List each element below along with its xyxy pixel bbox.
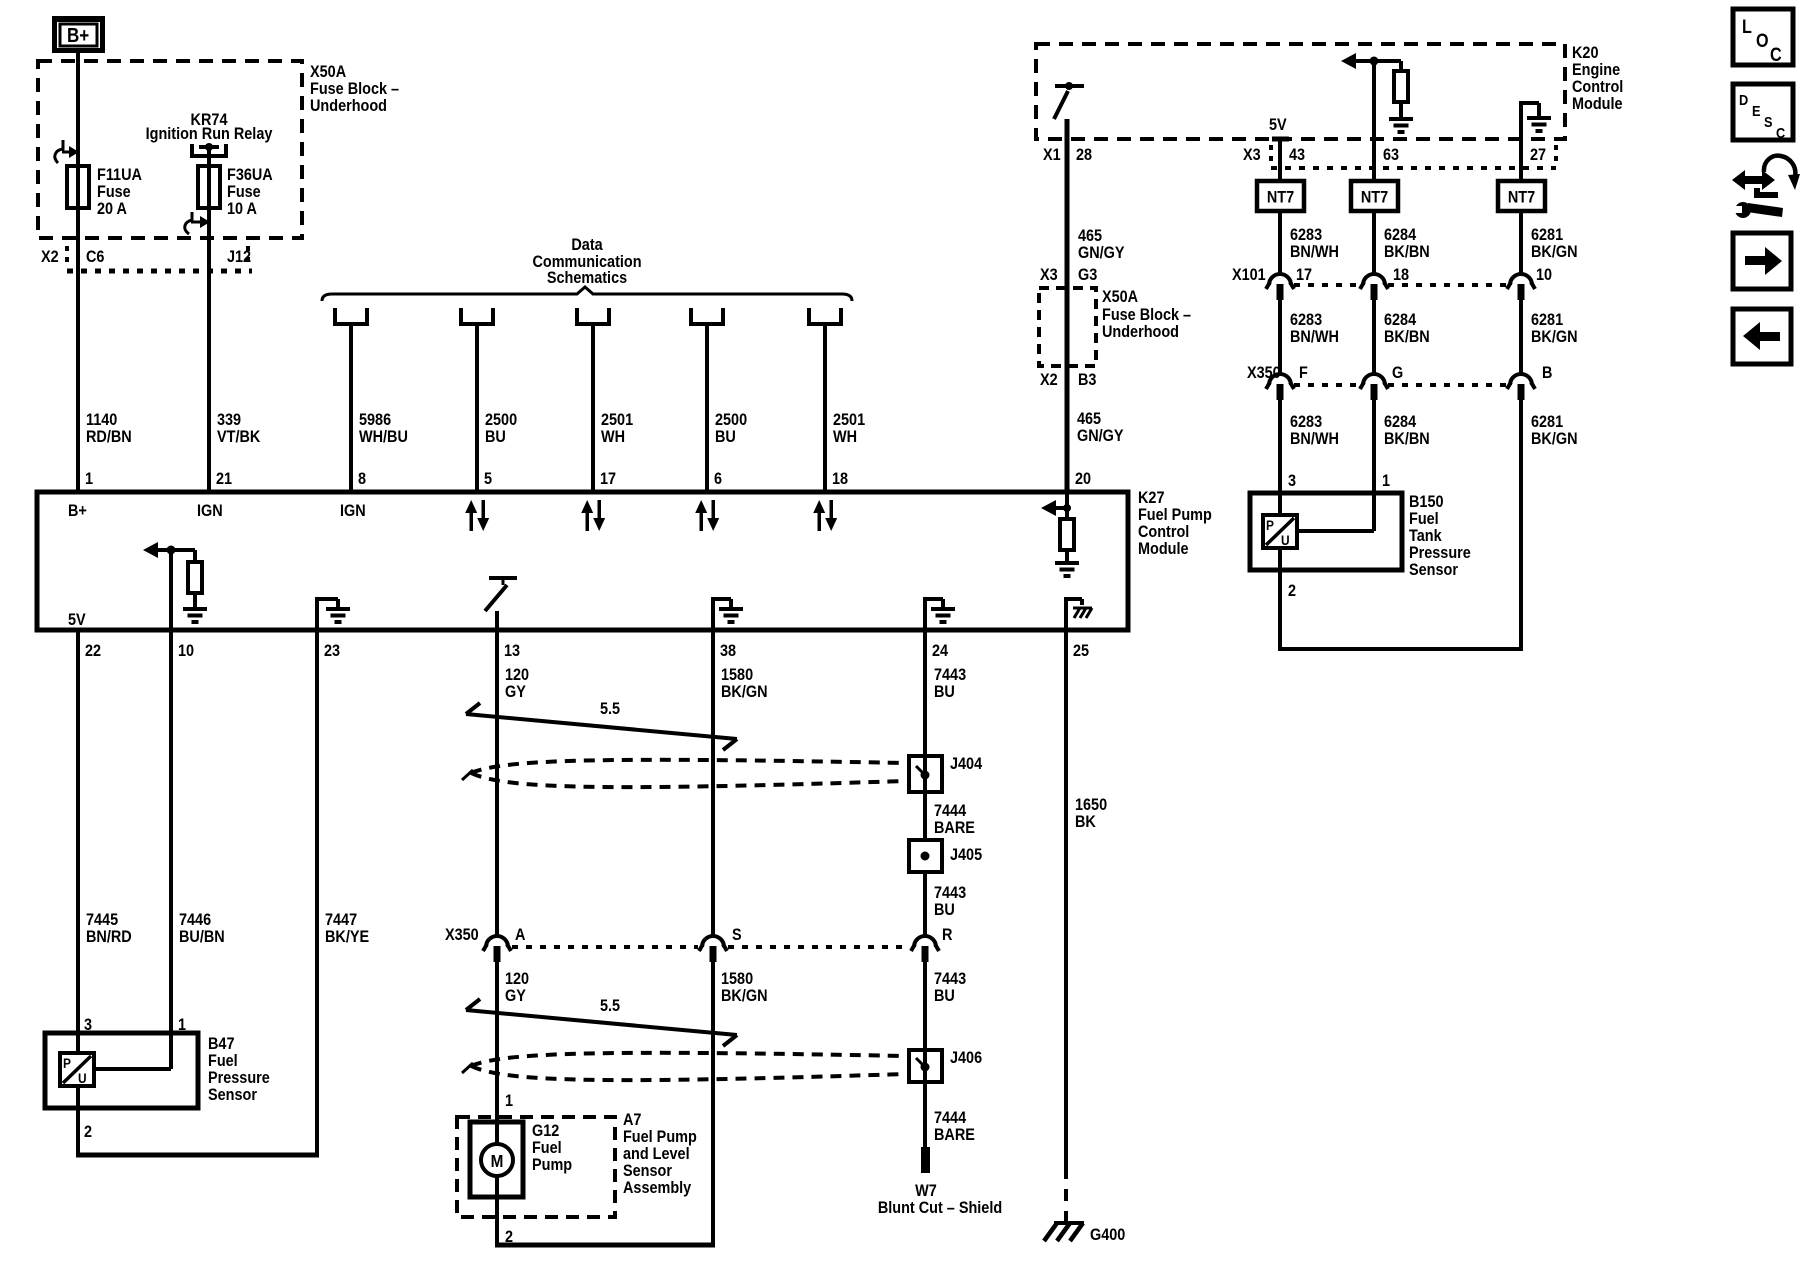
internal supply arrow at pin 20	[1041, 492, 1071, 520]
fuse F11UA 20 A	[67, 166, 89, 208]
wire B47 pin 2 return	[76, 1086, 319, 1155]
svg-text:B150: B150	[1409, 493, 1444, 511]
wire 6283 X101 to X350	[1278, 300, 1282, 374]
connector X101 terminal 10	[1507, 274, 1535, 300]
assembly A7 dashed box	[457, 1117, 615, 1217]
svg-text:5.5: 5.5	[600, 997, 620, 1015]
pressure transducer symbol in B150	[1263, 515, 1297, 548]
svg-text:A7: A7	[623, 1111, 642, 1129]
fuse block X50A dashed box	[38, 61, 302, 238]
wire 7447 BK/YE pin 23	[315, 630, 319, 1155]
icon back arrow box	[1733, 309, 1791, 364]
svg-text:6281: 6281	[1531, 311, 1563, 329]
svg-text:B+: B+	[68, 502, 87, 520]
internal switch at X1 28	[1054, 82, 1084, 119]
svg-text:3: 3	[1288, 472, 1296, 490]
wire 1650 BK pin 25	[1064, 630, 1068, 1167]
label K20 Engine Control Module	[1572, 44, 1623, 113]
svg-text:7443: 7443	[934, 884, 966, 902]
svg-text:C6: C6	[86, 248, 105, 266]
svg-text:X50A: X50A	[310, 63, 346, 81]
svg-text:Ignition Run Relay: Ignition Run Relay	[146, 125, 273, 143]
svg-text:23: 23	[324, 642, 340, 660]
wire label 120 GY	[505, 666, 529, 701]
svg-text:BK/GN: BK/GN	[1531, 243, 1578, 261]
svg-text:Tank: Tank	[1409, 527, 1442, 545]
connector X350 row labels upper	[1247, 364, 1552, 382]
motor M symbol	[481, 1144, 513, 1176]
sensor B47 box	[45, 1033, 198, 1108]
connector clip below fuse F36UA	[185, 212, 210, 234]
svg-text:13: 13	[504, 642, 520, 660]
wire 7446 BU/BN pin 10 to B47	[94, 550, 171, 1069]
fuse F36UA 10 A	[198, 166, 220, 208]
svg-text:B: B	[1542, 364, 1552, 382]
splice J404	[909, 756, 942, 792]
svg-text:1: 1	[85, 470, 93, 488]
data wire 2500 BU pin 5	[475, 324, 479, 492]
svg-text:GY: GY	[505, 683, 526, 701]
svg-text:38: 38	[720, 642, 736, 660]
svg-text:Fuel Pump: Fuel Pump	[623, 1128, 697, 1146]
svg-text:Fuse: Fuse	[97, 183, 131, 201]
wire 6283 BN/WH NT7 to X101	[1278, 211, 1282, 274]
svg-text:BK/GN: BK/GN	[1531, 430, 1578, 448]
svg-text:465: 465	[1077, 410, 1101, 428]
wire label 1580 BK/GN	[721, 666, 768, 701]
svg-text:Sensor: Sensor	[208, 1086, 257, 1104]
svg-text:B+: B+	[67, 24, 89, 47]
internal ground at pin 20 branch	[1055, 561, 1079, 578]
svg-text:BN/WH: BN/WH	[1290, 430, 1339, 448]
svg-text:BN/WH: BN/WH	[1290, 328, 1339, 346]
svg-text:10 A: 10 A	[227, 200, 257, 218]
wire label 7443 BU	[934, 884, 966, 919]
svg-text:21: 21	[216, 470, 232, 488]
splice J406	[909, 1050, 942, 1082]
svg-text:M: M	[491, 1151, 504, 1171]
wire B150 pin 1 internal	[1297, 529, 1374, 533]
svg-text:G12: G12	[532, 1122, 560, 1140]
svg-text:X3: X3	[1243, 146, 1261, 164]
svg-text:GY: GY	[505, 987, 526, 1005]
svg-text:J406: J406	[950, 1049, 982, 1067]
twisted pair marker 5.5 upper	[466, 703, 737, 750]
wire label 6283 BN/WH set2	[1290, 311, 1339, 346]
svg-text:X3: X3	[1040, 266, 1058, 284]
internal ground at pin 27	[1527, 116, 1551, 133]
internal ground at pin 10	[183, 607, 207, 624]
svg-text:W7: W7	[915, 1182, 937, 1200]
wire 7445 BN/RD pin 22 to B47	[76, 630, 80, 1054]
label F11UA Fuse 20 A	[97, 166, 142, 218]
noise suppressor NT7 third	[1498, 181, 1545, 211]
svg-text:1: 1	[1382, 472, 1390, 490]
data wire 2501 WH pin 17	[591, 324, 595, 492]
svg-text:F: F	[1299, 364, 1308, 382]
wire label 2501 WH	[833, 411, 865, 446]
connector clip on wire C6	[55, 140, 79, 163]
svg-text:BU: BU	[934, 683, 955, 701]
internal resistor at pin 63	[1394, 61, 1408, 117]
wire label 6281 BK/GN set1	[1531, 226, 1578, 261]
svg-text:120: 120	[505, 970, 529, 988]
sensor B150 box	[1250, 493, 1402, 570]
svg-text:18: 18	[832, 470, 848, 488]
svg-text:6284: 6284	[1384, 226, 1416, 244]
svg-text:7444: 7444	[934, 802, 966, 820]
wire label 7443 BU	[934, 666, 966, 701]
svg-text:1650: 1650	[1075, 796, 1107, 814]
svg-text:1580: 1580	[721, 970, 753, 988]
svg-text:BK/GN: BK/GN	[721, 683, 768, 701]
svg-text:L: L	[1742, 16, 1752, 38]
data communication schematics label	[532, 236, 641, 287]
data terminal 2	[461, 308, 493, 324]
wire label 6283 BN/WH set1	[1290, 226, 1339, 261]
svg-text:F36UA: F36UA	[227, 166, 273, 184]
svg-text:BARE: BARE	[934, 1126, 975, 1144]
svg-text:5.5: 5.5	[600, 700, 620, 718]
svg-text:RD/BN: RD/BN	[86, 428, 132, 446]
fuel pump G12 box	[470, 1122, 523, 1197]
svg-text:Engine: Engine	[1572, 61, 1620, 79]
wire 6281 X101 to X350	[1519, 300, 1523, 374]
svg-text:Fuse Block –: Fuse Block –	[1102, 306, 1191, 324]
wire label 7443 BU lower	[934, 970, 966, 1005]
internal chassis ground at pin 25	[1064, 597, 1092, 630]
svg-text:Underhood: Underhood	[1102, 323, 1179, 341]
wire 6281 BK/GN NT7 to X101	[1519, 211, 1523, 274]
relay KR74 label	[146, 111, 273, 143]
svg-text:18: 18	[1393, 266, 1409, 284]
wire 6284 X101 to X350	[1372, 300, 1376, 374]
svg-text:K27: K27	[1138, 489, 1165, 507]
wire label 1650 BK	[1075, 796, 1107, 831]
svg-text:Pump: Pump	[532, 1156, 572, 1174]
relay KR74 contact symbol	[192, 143, 226, 156]
svg-text:5V: 5V	[68, 611, 86, 629]
blunt cut W7 bar	[921, 1147, 930, 1173]
connector X350 row labels lower	[445, 926, 953, 944]
data arrows pin 5	[465, 500, 489, 531]
svg-text:7443: 7443	[934, 666, 966, 684]
svg-text:Module: Module	[1138, 540, 1189, 558]
shield loop dashed ellipse lower	[462, 1053, 905, 1080]
svg-text:Fuel Pump: Fuel Pump	[1138, 506, 1212, 524]
shield loop dashed ellipse upper	[462, 760, 905, 787]
svg-text:7443: 7443	[934, 970, 966, 988]
label X50A Fuse Block Underhood	[310, 63, 399, 115]
wire label 7444 BARE lower	[934, 1109, 975, 1144]
internal 5V reference arrow at pin 63	[1341, 53, 1401, 69]
svg-text:BK/GN: BK/GN	[1531, 328, 1578, 346]
svg-text:F11UA: F11UA	[97, 166, 142, 184]
connector X101 terminal 17	[1266, 274, 1294, 300]
wire 63 vertical	[1372, 61, 1376, 181]
svg-text:6284: 6284	[1384, 311, 1416, 329]
svg-text:7447: 7447	[325, 911, 357, 929]
label W7 Blunt Cut Shield	[878, 1182, 1002, 1217]
svg-text:6281: 6281	[1531, 413, 1563, 431]
svg-text:2: 2	[1288, 582, 1296, 600]
svg-text:BU: BU	[715, 428, 736, 446]
module K27 Fuel Pump Control Module box	[37, 492, 1128, 630]
svg-text:X101: X101	[1232, 266, 1266, 284]
connector X350 terminal S	[699, 936, 727, 962]
svg-text:Assembly: Assembly	[623, 1179, 691, 1197]
internal switch driver at pin 13	[485, 578, 517, 630]
svg-text:20: 20	[1075, 470, 1091, 488]
wire 7443 BU pin 24 upper	[923, 630, 927, 756]
svg-text:24: 24	[932, 642, 948, 660]
wire label 6281 BK/GN set3	[1531, 413, 1578, 448]
svg-text:17: 17	[600, 470, 616, 488]
data wire 5986 WH/BU pin 8	[349, 324, 353, 492]
svg-text:25: 25	[1073, 642, 1089, 660]
svg-text:J405: J405	[950, 846, 982, 864]
internal resistor at pin 20	[1060, 519, 1074, 561]
svg-text:Blunt Cut – Shield: Blunt Cut – Shield	[878, 1199, 1002, 1217]
internal 5V reference arrow at pin 10	[143, 542, 195, 558]
wire 1580 BK/GN lower	[711, 962, 715, 1247]
svg-text:27: 27	[1530, 146, 1546, 164]
wire 120 GY pin 13 upper	[495, 630, 499, 937]
svg-text:Module: Module	[1572, 95, 1623, 113]
svg-text:BARE: BARE	[934, 819, 975, 837]
svg-text:C: C	[1770, 44, 1782, 66]
svg-text:Fuel: Fuel	[208, 1052, 238, 1070]
connector X350 dashed links upper	[1294, 383, 1506, 387]
svg-text:7446: 7446	[179, 911, 211, 929]
wire label 7444 BARE	[934, 802, 975, 837]
wire label 465 GN/GY lower	[1077, 410, 1124, 445]
svg-text:Data: Data	[571, 236, 603, 254]
svg-text:BK/YE: BK/YE	[325, 928, 369, 946]
wire fuel pump return	[495, 1175, 715, 1245]
svg-text:Schematics: Schematics	[547, 269, 627, 287]
wire relay to fuse F36UA to module pin 21	[207, 147, 211, 492]
data wire 2500 BU pin 6	[705, 324, 709, 492]
svg-text:BK/BN: BK/BN	[1384, 243, 1430, 261]
wire label 2500 BU	[485, 411, 517, 446]
connector X101 dashed links	[1294, 283, 1506, 287]
icon LOC box	[1733, 9, 1793, 65]
svg-text:Control: Control	[1138, 523, 1189, 541]
svg-text:BK/BN: BK/BN	[1384, 328, 1430, 346]
connector X2 pin row labels	[41, 248, 251, 266]
svg-text:2501: 2501	[601, 411, 633, 429]
svg-text:R: R	[942, 926, 953, 944]
data communication brace	[322, 287, 852, 301]
wire 43 stub at ECM	[1272, 139, 1289, 181]
svg-text:O: O	[1756, 30, 1769, 52]
svg-text:63: 63	[1383, 146, 1399, 164]
connector X350 terminal A	[483, 936, 511, 962]
data terminal 4	[691, 308, 723, 324]
svg-text:17: 17	[1296, 266, 1312, 284]
wire B+ to fuse F11UA to module pin 1	[76, 53, 80, 492]
svg-text:X2: X2	[1040, 371, 1058, 389]
svg-text:Sensor: Sensor	[1409, 561, 1458, 579]
internal ground at pin 23	[315, 597, 338, 630]
label B47 Fuel Pressure Sensor	[208, 1035, 270, 1104]
ground G400 symbol	[1044, 1223, 1084, 1241]
connector X2 dotted separators	[67, 246, 252, 271]
svg-text:G3: G3	[1078, 266, 1097, 284]
label B150 Fuel Tank Pressure Sensor	[1409, 493, 1471, 579]
pressure transducer symbol in B47	[60, 1053, 94, 1086]
label K27 Fuel Pump Control Module	[1138, 489, 1212, 558]
svg-text:BU: BU	[934, 987, 955, 1005]
data terminal 5	[809, 308, 841, 324]
wire label 6283 BN/WH set3	[1290, 413, 1339, 448]
wire label 1580 BK/GN lower	[721, 970, 768, 1005]
svg-text:GN/GY: GN/GY	[1077, 427, 1124, 445]
svg-text:BK/GN: BK/GN	[721, 987, 768, 1005]
svg-text:10: 10	[178, 642, 194, 660]
wire label 6284 BK/BN set3	[1384, 413, 1430, 448]
svg-text:7444: 7444	[934, 1109, 966, 1127]
connector X350 terminal R	[911, 936, 939, 962]
svg-text:10: 10	[1536, 266, 1552, 284]
module K20 Engine Control Module dashed box	[1036, 44, 1565, 139]
wire dashed segment to G400	[1064, 1167, 1068, 1226]
wire label 6284 BK/BN set1	[1384, 226, 1430, 261]
svg-text:6283: 6283	[1290, 226, 1322, 244]
connector X350 terminal G	[1360, 374, 1388, 400]
wire label 5986 WH/BU	[359, 411, 408, 446]
icon pointer navigation	[1732, 156, 1800, 218]
wire 7443 BU lower	[923, 962, 927, 1050]
svg-text:WH: WH	[601, 428, 625, 446]
svg-text:6: 6	[714, 470, 722, 488]
label A7 Fuel Pump and Level Sensor Assembly	[623, 1111, 697, 1197]
splice J405	[909, 840, 942, 872]
svg-text:X350: X350	[445, 926, 479, 944]
wire label 465 GN/GY upper	[1078, 227, 1125, 262]
svg-text:GN/GY: GN/GY	[1078, 244, 1125, 262]
svg-text:5986: 5986	[359, 411, 391, 429]
connector X101 row labels	[1232, 266, 1552, 284]
svg-text:5: 5	[484, 470, 492, 488]
svg-text:BU/BN: BU/BN	[179, 928, 225, 946]
wire label 6281 BK/GN set2	[1531, 311, 1578, 346]
svg-text:BU: BU	[485, 428, 506, 446]
svg-text:28: 28	[1076, 146, 1092, 164]
svg-text:Fuse: Fuse	[227, 183, 261, 201]
svg-text:BN/WH: BN/WH	[1290, 243, 1339, 261]
svg-text:339: 339	[217, 411, 241, 429]
svg-text:B47: B47	[208, 1035, 235, 1053]
connector X101 terminal 18	[1360, 274, 1388, 300]
svg-text:X1: X1	[1043, 146, 1061, 164]
svg-text:A: A	[515, 926, 525, 944]
svg-text:1: 1	[505, 1092, 513, 1110]
svg-text:2501: 2501	[833, 411, 865, 429]
svg-text:6283: 6283	[1290, 413, 1322, 431]
svg-text:G400: G400	[1090, 1226, 1126, 1244]
svg-text:G: G	[1392, 364, 1403, 382]
svg-text:43: 43	[1289, 146, 1305, 164]
svg-text:2: 2	[84, 1123, 92, 1141]
svg-text:22: 22	[85, 642, 101, 660]
svg-text:7445: 7445	[86, 911, 118, 929]
wire 6284 BK/BN NT7 to X101	[1372, 211, 1376, 274]
svg-text:D: D	[1739, 91, 1748, 108]
data terminal 1	[335, 308, 367, 324]
data arrows pin 6	[695, 500, 719, 531]
internal resistor at pin 10	[188, 550, 202, 607]
wire label 339 VT/BK	[217, 411, 261, 446]
svg-text:2500: 2500	[715, 411, 747, 429]
label X50A Fuse Block Underhood right	[1102, 288, 1191, 341]
svg-text:BN/RD: BN/RD	[86, 928, 132, 946]
svg-text:VT/BK: VT/BK	[217, 428, 261, 446]
connector X350 terminal F	[1266, 374, 1294, 400]
wire label 7447 BK/YE	[325, 911, 369, 946]
svg-text:120: 120	[505, 666, 529, 684]
svg-text:20 A: 20 A	[97, 200, 127, 218]
data wire 2501 WH pin 18	[823, 324, 827, 492]
wire label 7446 BU/BN	[179, 911, 225, 946]
svg-text:BU: BU	[934, 901, 955, 919]
svg-text:6283: 6283	[1290, 311, 1322, 329]
svg-text:Fuse Block –: Fuse Block –	[310, 80, 399, 98]
wire 7444 BARE J404 to J405	[923, 792, 927, 840]
svg-text:2500: 2500	[485, 411, 517, 429]
data arrows pin 17	[581, 500, 605, 531]
fuse block X50A pass-through dashed box	[1039, 288, 1096, 366]
wire label 1140 RD/BN	[86, 411, 132, 446]
svg-text:Pressure: Pressure	[1409, 544, 1471, 562]
svg-text:465: 465	[1078, 227, 1102, 245]
wire label 7445 BN/RD	[86, 911, 132, 946]
svg-text:S: S	[732, 926, 742, 944]
twisted pair marker 5.5 lower	[466, 999, 737, 1046]
svg-text:8: 8	[358, 470, 366, 488]
wire 6281 X350 to B150 pin 2	[1280, 400, 1523, 649]
label F36UA Fuse 10 A	[227, 166, 273, 218]
wire label 6284 BK/BN set2	[1384, 311, 1430, 346]
svg-text:S: S	[1764, 113, 1773, 130]
wire 7444 BARE to blunt cut	[923, 1082, 927, 1147]
svg-text:1580: 1580	[721, 666, 753, 684]
svg-text:BK: BK	[1075, 813, 1096, 831]
svg-text:WH/BU: WH/BU	[359, 428, 408, 446]
svg-text:BK/BN: BK/BN	[1384, 430, 1430, 448]
svg-text:E: E	[1752, 102, 1761, 119]
internal ground at pin 63	[1389, 117, 1413, 134]
svg-text:C: C	[1776, 124, 1785, 141]
connector X3 dotted row of ECM	[1271, 145, 1556, 168]
connector X350 dashed links lower	[512, 945, 910, 949]
svg-text:1140: 1140	[86, 411, 118, 429]
data arrows pin 18	[813, 500, 837, 531]
wire 120 GY lower	[495, 962, 499, 1146]
svg-text:WH: WH	[833, 428, 857, 446]
svg-text:X50A: X50A	[1102, 288, 1138, 306]
svg-text:Fuel: Fuel	[1409, 510, 1439, 528]
battery B+ terminal	[52, 16, 105, 53]
svg-text:Control: Control	[1572, 78, 1623, 96]
svg-text:IGN: IGN	[340, 502, 366, 520]
svg-text:Fuel: Fuel	[532, 1139, 562, 1157]
wire label 2500 BU	[715, 411, 747, 446]
svg-text:Sensor: Sensor	[623, 1162, 672, 1180]
label G12 Fuel Pump	[532, 1122, 572, 1174]
svg-text:6284: 6284	[1384, 413, 1416, 431]
